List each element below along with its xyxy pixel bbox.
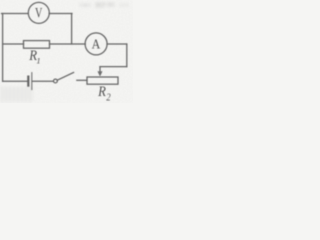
svg-text:V: V bbox=[35, 4, 43, 20]
wire ammeter to right corner bbox=[107, 43, 127, 45]
watermark top-right faint text remnants bbox=[79, 2, 129, 8]
wire switch to R2 bbox=[77, 79, 87, 81]
scan noise overlay bbox=[0, 0, 133, 103]
switch S pivot circle bbox=[54, 79, 58, 83]
svg-text:2: 2 bbox=[106, 93, 111, 103]
svg-text:1: 1 bbox=[36, 56, 40, 66]
wire middle-left: rail to R1 bbox=[3, 43, 24, 45]
switch S lever bbox=[57, 73, 73, 81]
wire V-loop right vertical bbox=[71, 14, 73, 45]
svg-text:R: R bbox=[97, 83, 106, 99]
voltmeter U1 circle bbox=[28, 2, 49, 23]
ammeter U2 circle bbox=[85, 33, 107, 55]
wire elbow horizontal to slider bbox=[100, 66, 127, 68]
wire top-right: voltmeter to V-loop corner bbox=[49, 13, 72, 15]
battery BT1 short thick plate bbox=[27, 77, 29, 86]
wire middle-right: R1 to ammeter bbox=[50, 43, 86, 45]
resistor R1 body bbox=[24, 41, 50, 49]
paper background bbox=[0, 0, 133, 103]
battery BT1 long thin plate bbox=[31, 73, 33, 90]
wire battery to switch bbox=[32, 80, 53, 82]
wire right vertical bbox=[126, 44, 128, 67]
rheostat R2 slider stem bbox=[99, 67, 101, 73]
watermark bottom-left faint stripes bbox=[0, 86, 34, 103]
wire top-left: left rail to voltmeter bbox=[2, 13, 29, 15]
rheostat R2 slider arrowhead bbox=[98, 71, 103, 76]
wire left rail bbox=[2, 14, 4, 82]
wire bottom: rail to switch bbox=[3, 80, 28, 82]
rheostat R2 body bbox=[87, 77, 118, 84]
svg-text:A: A bbox=[92, 36, 101, 52]
